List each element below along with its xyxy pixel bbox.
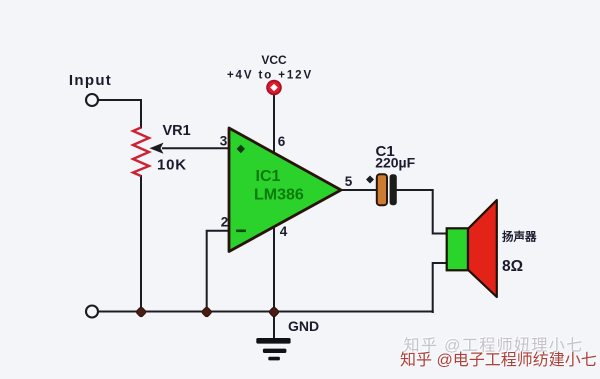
svg-text:VR1: VR1	[163, 123, 191, 139]
svg-text:知乎 @电子工程师纺建小七: 知乎 @电子工程师纺建小七	[400, 351, 597, 369]
svg-text:LM386: LM386	[254, 187, 304, 204]
svg-text:Input: Input	[69, 72, 112, 89]
svg-text:5: 5	[345, 174, 353, 189]
svg-text:2: 2	[221, 215, 229, 230]
svg-text:+4V to +12V: +4V to +12V	[227, 70, 313, 82]
svg-text:10K: 10K	[157, 157, 187, 174]
svg-text:IC1: IC1	[256, 168, 281, 185]
svg-text:3: 3	[220, 134, 228, 149]
svg-text:6: 6	[278, 134, 286, 149]
svg-text:扬声器: 扬声器	[502, 230, 537, 244]
svg-text:4: 4	[280, 224, 288, 239]
svg-text:220µF: 220µF	[375, 155, 415, 171]
svg-text:8Ω: 8Ω	[502, 258, 523, 275]
svg-text:VCC: VCC	[261, 53, 287, 67]
svg-text:GND: GND	[288, 318, 319, 334]
